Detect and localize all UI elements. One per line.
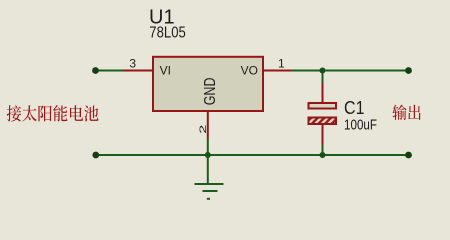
pin 1 (VO) xyxy=(264,70,292,72)
regulator U1 body (78L05) xyxy=(153,57,263,111)
svg-text:VI: VI xyxy=(160,64,171,78)
junction: output rail / C1 xyxy=(320,68,326,74)
svg-text:1: 1 xyxy=(278,56,285,70)
pin 3 (VI) xyxy=(124,70,153,72)
wire: input rail (left terminal to pin 3) xyxy=(96,70,125,72)
node label: 输出 (output) xyxy=(393,105,421,120)
svg-text:2: 2 xyxy=(198,125,208,134)
ground xyxy=(195,155,224,199)
node: input terminal dot xyxy=(92,67,99,74)
capacitor C1 pin top xyxy=(322,83,324,102)
wire: output rail to C1 top xyxy=(322,71,324,84)
node: output terminal dot xyxy=(405,67,412,74)
wire: ground rail (bottom) xyxy=(96,154,409,156)
svg-text:C1: C1 xyxy=(344,97,365,118)
svg-text:VO: VO xyxy=(241,64,258,78)
svg-text:78L05: 78L05 xyxy=(149,24,186,41)
node: bottom-left terminal dot xyxy=(92,152,99,159)
svg-text:GND: GND xyxy=(202,78,219,106)
svg-text:3: 3 xyxy=(129,56,136,70)
svg-text:100uF: 100uF xyxy=(344,118,377,134)
wire: C1 bottom to ground rail xyxy=(322,145,324,156)
capacitor C1 bottom plate (polarized, hatched) xyxy=(309,118,337,125)
node: bottom-right terminal dot xyxy=(405,152,412,159)
wire: pin 2 to ground rail xyxy=(207,138,209,155)
junction: pin 2 / ground rail xyxy=(205,152,211,158)
capacitor C1 top plate xyxy=(309,103,337,109)
wire: output rail (pin 1 to output terminal) xyxy=(291,70,409,72)
junction: C1 / ground rail xyxy=(320,152,326,158)
pin 2 (GND) xyxy=(207,112,209,139)
node label: 接太阳能电池 (connect solar battery) xyxy=(7,105,99,121)
capacitor C1 pin bottom xyxy=(322,125,324,145)
